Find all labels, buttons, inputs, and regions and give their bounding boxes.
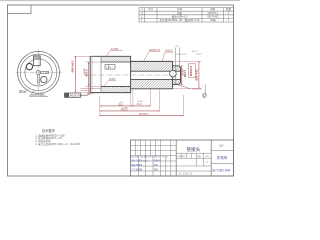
- parts list table grid: [139, 8, 234, 22]
- surface roughness symbol: [202, 93, 206, 97]
- svg-text:数量: 数量: [226, 7, 232, 11]
- flange bottom wall hatch: [101, 86, 131, 92]
- svg-text:4. 未注公差按GB/T 1804—m：±0.2/±0.5: 4. 未注公差按GB/T 1804—m：±0.2/±0.5: [35, 142, 80, 146]
- cross hole circle: [170, 70, 177, 77]
- svg-text:螺堵 M24×1.5: 螺堵 M24×1.5: [172, 14, 188, 18]
- svg-text:名称: 名称: [177, 7, 183, 11]
- flange top wall hatch: [101, 56, 131, 62]
- svg-text:技术要求: 技术要求: [42, 128, 56, 133]
- stub top wall hatch: [173, 66, 181, 71]
- end view centerline horizontal: [16, 71, 62, 73]
- mid section bottom wall hatch: [131, 80, 173, 89]
- svg-text:M12X1.25: M12X1.25: [192, 88, 203, 90]
- counterbore bottom line: [101, 85, 131, 87]
- svg-text:45钢: 45钢: [210, 18, 216, 22]
- end view chamfer leader: [31, 91, 34, 95]
- end view outer circle: [18, 51, 60, 93]
- end view radial hole projection: [40, 71, 48, 73]
- svg-text:Φ20−0.02: Φ20−0.02: [195, 69, 198, 81]
- bottom dim 40 line: [133, 105, 150, 107]
- middle area lines: [176, 153, 211, 171]
- bore top line: [131, 70, 181, 72]
- svg-text:Φ12 0: Φ12 0: [183, 69, 187, 77]
- parts list row 1 text: [141, 7, 231, 22]
- drawing frame border: [8, 5, 234, 176]
- right dim 20 extensions: [173, 61, 201, 88]
- datum box leader: [81, 93, 91, 96]
- datum box dark cell: [65, 93, 70, 97]
- svg-text:Φ48.4±0.2: Φ48.4±0.2: [72, 60, 75, 72]
- end view center hole: [36, 71, 40, 75]
- stub thread relief line: [175, 66, 177, 85]
- end view hole NW: [26, 63, 32, 69]
- bottom dim 46.5 line: [100, 110, 160, 112]
- svg-text:材料: 材料: [210, 7, 216, 11]
- right framed dim M20: [189, 64, 196, 78]
- svg-text:代号: 代号: [148, 7, 154, 11]
- main view centerline: [84, 74, 187, 76]
- flange thread minor line: [91, 58, 93, 92]
- cross hole centerline: [172, 69, 174, 79]
- left dim 42 extension lines: [86, 62, 102, 86]
- top-left reference box: [8, 5, 32, 14]
- svg-text:Φ42 0: Φ42 0: [85, 69, 88, 77]
- right dim 20 line: [198, 61, 200, 88]
- svg-text:带孔销GB/T880—86 · 螺母M8×1.25: 带孔销GB/T880—86 · 螺母M8×1.25: [160, 18, 200, 22]
- datum box M33: [65, 93, 81, 97]
- svg-text:Ra6.3: Ra6.3: [196, 53, 202, 55]
- page background: [0, 0, 240, 180]
- svg-text:1.5: 1.5: [180, 85, 183, 87]
- right column lines: [211, 150, 233, 152]
- svg-text:Φ6.6: Φ6.6: [19, 89, 25, 93]
- svg-text:GB/T97.1: GB/T97.1: [207, 12, 218, 15]
- stub outline with chamfer: [173, 66, 181, 85]
- svg-text:◎ Φ0.1: ◎ Φ0.1: [106, 66, 114, 69]
- end view hole SE: [41, 76, 47, 82]
- svg-text:SLY: SLY: [219, 143, 224, 147]
- revision area verticals upper: [135, 140, 171, 176]
- left dim 42 line: [88, 62, 90, 86]
- svg-text:先导阀: 先导阀: [217, 155, 228, 160]
- thread leader M12: [178, 85, 191, 89]
- left dim 48 extension lines: [74, 56, 90, 92]
- end view second circle: [20, 54, 57, 91]
- end view centerline vertical: [38, 50, 40, 96]
- end view hole label underline: [19, 92, 27, 94]
- svg-text:M33X2-6H: M33X2-6H: [70, 95, 82, 98]
- svg-text:28.5: 28.5: [118, 103, 123, 106]
- bottom dim 28.5 line: [100, 105, 133, 107]
- mid section top wall hatch: [131, 61, 173, 71]
- svg-text:垫圈: 垫圈: [177, 11, 183, 15]
- right dim 12 line: [181, 66, 183, 85]
- end view chamfer label underline: [29, 95, 48, 97]
- top window edge band: [0, 0, 240, 1]
- svg-text:M20X1.5: M20X1.5: [190, 65, 193, 76]
- bore bottom line: [131, 79, 181, 81]
- extra red extension cluster at flange bottom left: [81, 86, 102, 94]
- mid section outline: [131, 61, 173, 88]
- end view center keyway slot: [37, 75, 39, 85]
- tolerance frame in counterbore: [105, 65, 115, 70]
- stub bottom wall hatch: [173, 80, 181, 85]
- title block outer: [131, 140, 234, 176]
- groove width dim top right: [175, 48, 179, 66]
- svg-text:66.5±0.2: 66.5±0.2: [139, 113, 149, 116]
- title block main dividers: [175, 140, 177, 176]
- right dim 12 extensions: [181, 66, 184, 85]
- sign area verticals lower: [138, 156, 165, 176]
- dimension arrowheads: [75, 56, 199, 116]
- end view keyway slot: [34, 56, 41, 66]
- left dim 48 line: [75, 56, 77, 92]
- bottom dim 66.5 line: [100, 115, 184, 117]
- svg-text:SLY-SD-004: SLY-SD-004: [212, 168, 230, 172]
- revision area horizontals: [131, 146, 177, 171]
- svg-text:40 0: 40 0: [137, 103, 142, 106]
- end view leader to hole label: [25, 90, 29, 93]
- end view keyway dark insert: [34, 56, 40, 60]
- flange inner step line: [100, 56, 102, 92]
- flange outline: [90, 56, 130, 92]
- end view bolt circle: [25, 59, 52, 86]
- svg-text:46.5 0: 46.5 0: [121, 109, 129, 112]
- groove depth reference line: [175, 53, 186, 55]
- counterbore top line: [101, 61, 131, 63]
- svg-text:GB/T3452: GB/T3452: [207, 15, 219, 18]
- svg-text:管接头: 管接头: [187, 146, 201, 153]
- bottom dim extension lines: [100, 89, 184, 116]
